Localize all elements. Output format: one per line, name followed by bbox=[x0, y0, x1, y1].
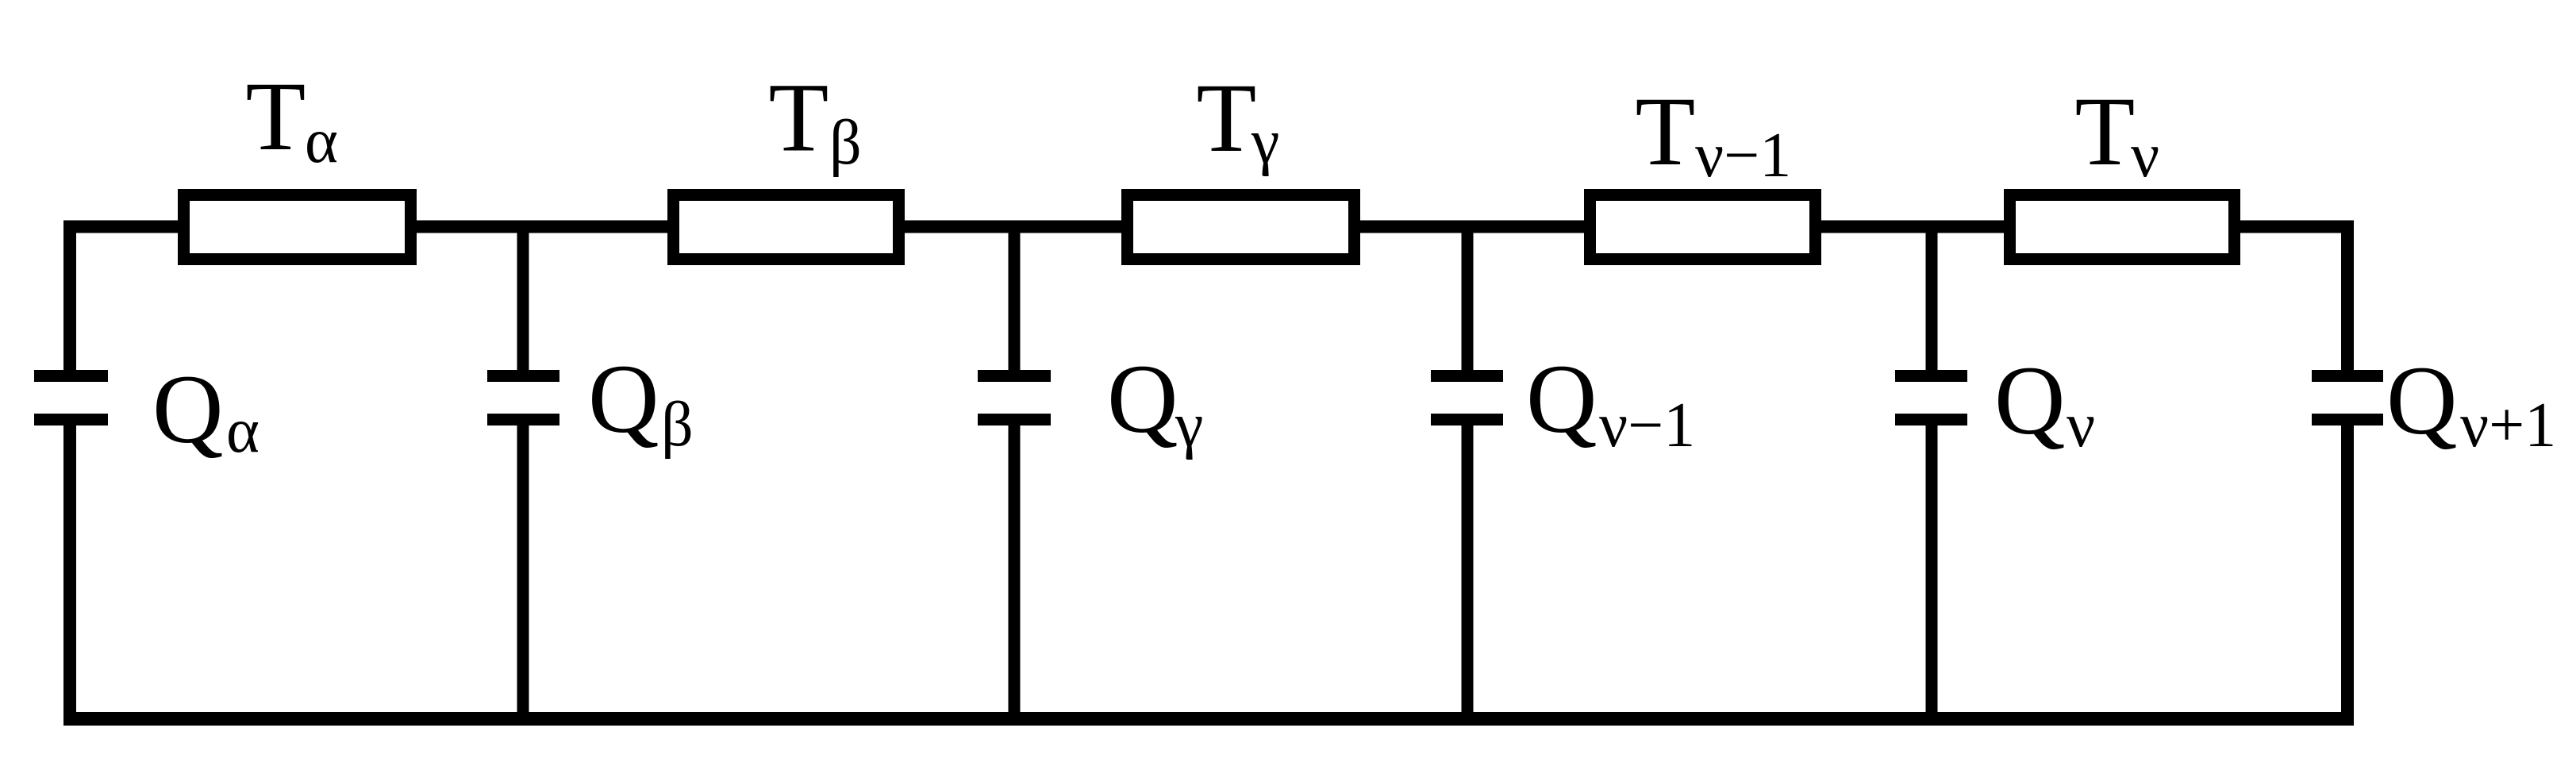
node D wire upper bbox=[1462, 226, 1474, 370]
capacitor Q_gamma bbox=[978, 376, 1051, 420]
node E wire upper bbox=[1926, 226, 1938, 370]
wire left branch upper bbox=[63, 221, 76, 371]
resistor T_nu-1 bbox=[1590, 195, 1816, 260]
label T_alpha bbox=[246, 62, 338, 176]
svg-text:ν+1: ν+1 bbox=[2460, 391, 2556, 460]
label Q_alpha bbox=[152, 355, 260, 466]
svg-text:Q: Q bbox=[1526, 345, 1598, 453]
node B wire lower bbox=[517, 426, 529, 725]
svg-text:Q: Q bbox=[1107, 345, 1178, 453]
wire left branch lower bbox=[63, 426, 76, 726]
label T_gamma bbox=[1197, 64, 1280, 177]
svg-text:Q: Q bbox=[1994, 346, 2066, 455]
label T_nu bbox=[2075, 77, 2160, 191]
top rail wire bbox=[63, 221, 2354, 233]
label Q_nu bbox=[1994, 346, 2095, 460]
capacitor Q_beta bbox=[487, 376, 559, 420]
bottom rail wire bbox=[63, 712, 2354, 726]
label T_nu-1 bbox=[1636, 77, 1792, 191]
wire right branch upper bbox=[2341, 221, 2354, 371]
resistor T_alpha bbox=[184, 195, 411, 260]
resistor T_nu bbox=[2010, 195, 2235, 260]
node B wire upper bbox=[517, 226, 529, 370]
svg-text:T: T bbox=[1197, 64, 1257, 172]
node C wire lower bbox=[1009, 426, 1021, 725]
svg-text:α: α bbox=[226, 396, 260, 466]
svg-text:γ: γ bbox=[1175, 391, 1203, 460]
capacitor Q_alpha bbox=[34, 376, 108, 420]
svg-text:γ: γ bbox=[1251, 107, 1279, 177]
resistor T_gamma bbox=[1128, 195, 1355, 260]
svg-text:T: T bbox=[2075, 77, 2136, 186]
svg-text:Q: Q bbox=[152, 355, 224, 464]
svg-text:ν: ν bbox=[2067, 391, 2095, 460]
label Q_nu+1 bbox=[2386, 346, 2556, 460]
resistor T_beta bbox=[674, 195, 899, 260]
svg-text:Q: Q bbox=[588, 345, 659, 453]
svg-text:β: β bbox=[661, 390, 694, 460]
svg-text:ν−1: ν−1 bbox=[1695, 121, 1791, 191]
label T_beta bbox=[769, 64, 862, 179]
label Q_beta bbox=[588, 345, 694, 460]
svg-text:ν−1: ν−1 bbox=[1599, 391, 1695, 460]
svg-text:α: α bbox=[305, 106, 338, 176]
svg-text:T: T bbox=[1636, 77, 1696, 186]
label Q_nu-1 bbox=[1526, 345, 1695, 460]
svg-text:β: β bbox=[829, 108, 862, 178]
label Q_gamma bbox=[1107, 345, 1203, 460]
svg-text:T: T bbox=[769, 64, 829, 172]
svg-text:Q: Q bbox=[2386, 346, 2458, 455]
capacitor Q_nu bbox=[1895, 376, 1967, 420]
capacitor Q_nu+1 bbox=[2312, 376, 2383, 420]
node D wire lower bbox=[1462, 426, 1474, 725]
wire right branch lower bbox=[2341, 426, 2354, 726]
node E wire lower bbox=[1926, 426, 1938, 725]
node C wire upper bbox=[1009, 226, 1021, 370]
capacitor Q_nu-1 bbox=[1431, 376, 1503, 420]
svg-text:T: T bbox=[246, 62, 306, 171]
svg-text:ν: ν bbox=[2131, 121, 2159, 191]
